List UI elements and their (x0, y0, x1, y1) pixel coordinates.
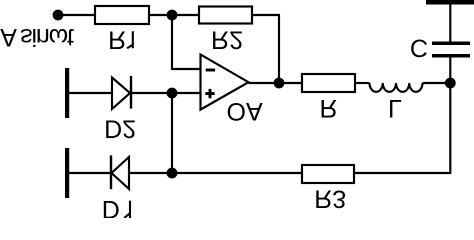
svg-text:R3: R3 (314, 185, 346, 213)
svg-text:R: R (319, 94, 337, 122)
svg-text:L: L (388, 94, 402, 122)
svg-text:R: R (108, 26, 126, 54)
svg-text:R2: R2 (211, 26, 243, 54)
svg-text:D2: D2 (104, 115, 136, 143)
svg-text:D: D (102, 195, 120, 218)
svg-text:OA: OA (227, 97, 263, 125)
svg-text:C: C (410, 33, 428, 61)
svg-text:A sinωt: A sinωt (0, 23, 74, 51)
